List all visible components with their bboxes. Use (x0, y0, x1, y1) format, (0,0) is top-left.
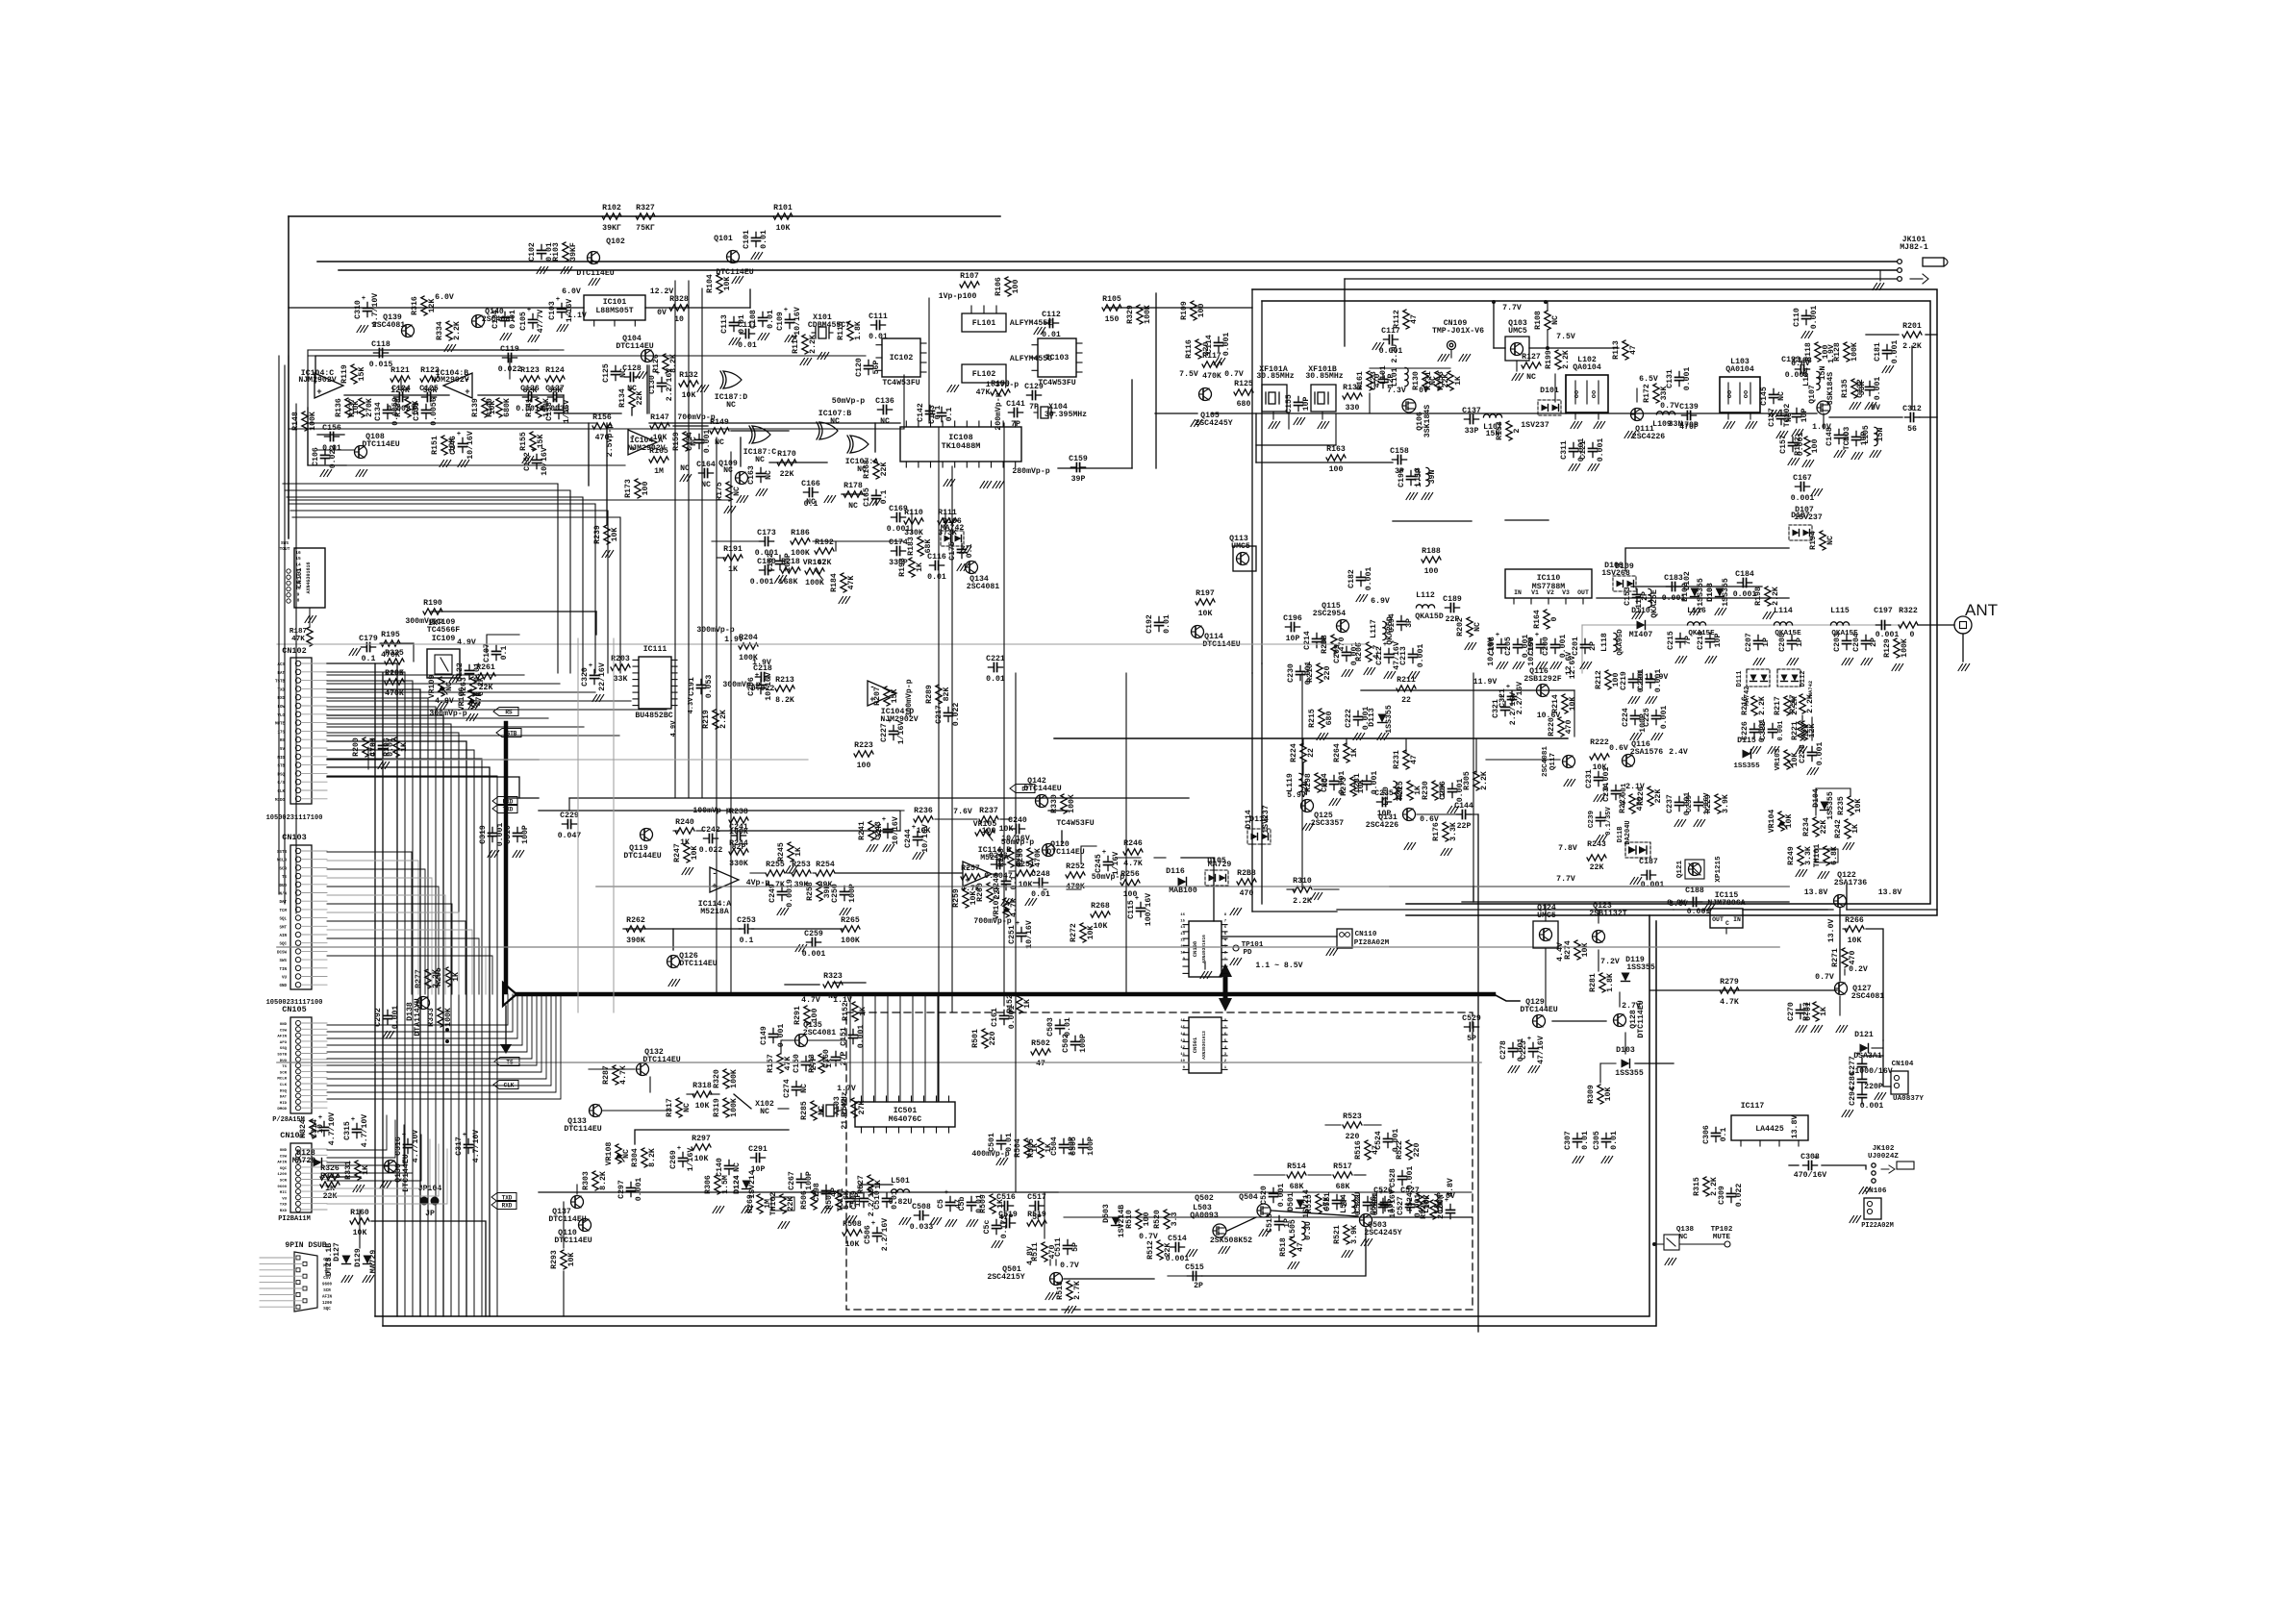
svg-text:D113: D113 (1368, 708, 1376, 727)
svg-text:R159: R159 (672, 432, 681, 451)
resistor R334 (436, 321, 462, 340)
resistor R188 (1422, 547, 1441, 576)
label Q113 (1229, 535, 1248, 543)
svg-text:0.7V: 0.7V (1139, 1233, 1158, 1241)
svg-text:R502: R502 (1031, 1039, 1050, 1048)
ground gnd (778, 1222, 790, 1229)
wire (506, 797, 539, 799)
resistor R207 (873, 687, 899, 706)
svg-text:330: 330 (1346, 404, 1360, 412)
label MA729 (369, 1250, 378, 1274)
label 1SV237 (1794, 513, 1823, 522)
svg-text:13: 13 (1180, 1039, 1185, 1043)
svg-text:56P: 56P (872, 361, 881, 375)
connector CN106 P122A02M (1850, 1187, 1894, 1230)
capacitor C5c (983, 1215, 1009, 1239)
resistor R203 (611, 655, 630, 684)
wire (1505, 519, 1548, 521)
label 1SV237 (1521, 421, 1549, 430)
resistor R505 (1027, 1138, 1053, 1158)
svg-text:R242: R242 (1834, 819, 1843, 838)
wire (288, 216, 290, 538)
resistor R268 (1091, 902, 1110, 931)
resistor R242 (1834, 819, 1860, 838)
ground gnd (899, 1218, 911, 1225)
svg-text:CSW: CSW (280, 1029, 288, 1033)
svg-text:VR108: VR108 (605, 1142, 614, 1166)
svg-text:1.1V: 1.1V (833, 996, 852, 1005)
svg-text:MCLR: MCLR (277, 1078, 287, 1082)
wire (1598, 950, 1599, 971)
capacitor C141 (1006, 400, 1025, 429)
resistor R525 (1420, 1200, 1446, 1219)
svg-text:50mVp-p: 50mVp-p (1092, 873, 1124, 882)
label Q136 (394, 1163, 403, 1183)
svg-text:9: 9 (297, 591, 300, 597)
wire (1635, 1062, 1674, 1064)
svg-text:R135: R135 (1841, 379, 1850, 398)
label 0V (1871, 404, 1880, 412)
transistor npn (1036, 795, 1048, 808)
capacitor C511 (1054, 1237, 1080, 1257)
svg-text:R223: R223 (854, 741, 873, 750)
svg-text:56: 56 (1907, 425, 1917, 434)
svg-text:300mVp-p: 300mVp-p (905, 679, 914, 716)
transistor npn (571, 1196, 584, 1209)
svg-text:AFIN: AFIN (277, 1162, 287, 1165)
inductor ind (1656, 412, 1674, 414)
label 1000/16V (1854, 1066, 1892, 1076)
svg-text:R210: R210 (1306, 663, 1315, 683)
transistor Q117 2SC4081 (1542, 746, 1575, 787)
svg-text:10K: 10K (845, 1240, 860, 1249)
wire (1055, 1260, 1057, 1265)
label CDBM455C7 (808, 321, 850, 330)
label DTC144EU (1520, 1006, 1557, 1014)
svg-text:C174: C174 (889, 538, 908, 547)
resistor R295 (435, 967, 461, 987)
connector CN107 (277, 1131, 327, 1213)
ground gnd (1311, 893, 1322, 900)
svg-text:CN104: CN104 (1892, 1061, 1914, 1068)
svg-text:R297: R297 (692, 1135, 711, 1143)
svg-text:100K: 100K (309, 412, 317, 431)
svg-text:R102: R102 (602, 204, 621, 212)
svg-text:NC: NC (683, 1103, 692, 1112)
ground gnd (993, 482, 1004, 488)
capacitor C230 (1287, 662, 1313, 686)
svg-text:R114: R114 (792, 335, 800, 354)
svg-text:C145: C145 (1760, 387, 1769, 406)
svg-text:GND: GND (280, 1023, 288, 1027)
svg-text:7.3V: 7.3V (1387, 387, 1406, 395)
svg-text:11.9V: 11.9V (1473, 678, 1498, 687)
svg-text:0.001: 0.001 (1379, 347, 1403, 356)
inductor L118 QKA95D (1600, 629, 1624, 656)
svg-text:R200: R200 (352, 737, 361, 757)
resistor R150 (991, 380, 1010, 395)
svg-text:IC102: IC102 (890, 354, 914, 362)
svg-text:470: 470 (1565, 720, 1573, 735)
resistor R195 (381, 631, 400, 660)
svg-text:0.001: 0.001 (1860, 1102, 1884, 1111)
wire (696, 830, 704, 832)
svg-text:R262: R262 (626, 916, 645, 925)
wire mid horizontal h (569, 797, 1189, 799)
svg-text:22P: 22P (1457, 822, 1472, 831)
ground gnd (1882, 366, 1894, 373)
ground gnd (1497, 662, 1508, 669)
diode dio (342, 1256, 351, 1264)
transistor npn (1192, 626, 1204, 638)
svg-text:10P: 10P (1302, 397, 1311, 412)
label DTC114EU (362, 440, 399, 449)
svg-text:BU4852BC: BU4852BC (635, 712, 672, 720)
net flag RS (493, 708, 518, 716)
svg-text:10K: 10K (776, 224, 791, 233)
resistor R214 (1551, 694, 1577, 713)
svg-text:DTC144EU: DTC144EU (1023, 785, 1061, 793)
svg-text:0V: 0V (1419, 387, 1428, 395)
svg-text:C102: C102 (528, 242, 537, 262)
label 7.3V (1387, 387, 1406, 395)
capacitor C217 (935, 703, 961, 727)
svg-text:R277: R277 (415, 969, 423, 988)
svg-text:R254: R254 (816, 861, 835, 869)
resistor R234 (1802, 817, 1828, 837)
svg-text:1K: 1K (794, 847, 803, 857)
svg-text:C204: C204 (1852, 633, 1861, 652)
svg-text:R322: R322 (1899, 607, 1918, 615)
resistor R315 (1693, 1177, 1719, 1196)
capacitor C200 (1542, 635, 1568, 659)
svg-text:R186: R186 (791, 529, 810, 537)
svg-text:SQC: SQC (280, 1167, 288, 1171)
svg-text:14: 14 (1180, 1033, 1185, 1037)
svg-text:R172: R172 (1643, 384, 1651, 403)
ground gnd (1219, 1247, 1230, 1254)
svg-text:C180: C180 (757, 558, 776, 566)
wire (740, 437, 742, 466)
connector CN501 AXN39301613 (1180, 1017, 1227, 1073)
svg-text:33P: 33P (1465, 427, 1479, 436)
svg-text:1.8K: 1.8K (854, 321, 863, 340)
wire gray vert 638 (613, 638, 615, 1012)
wire left vertical from top rail (288, 216, 290, 538)
label C526 (1373, 1187, 1393, 1195)
label 3SK184S (1423, 405, 1432, 437)
svg-text:R104: R104 (706, 274, 715, 293)
wire (874, 423, 876, 452)
svg-text:C116: C116 (927, 553, 946, 562)
svg-text:0.1: 0.1 (945, 408, 954, 422)
resistor R184 (830, 573, 856, 592)
svg-text:Q138: Q138 (1676, 1226, 1695, 1234)
label L503 (1193, 1204, 1212, 1212)
svg-text:13.0V: 13.0V (1827, 919, 1836, 943)
svg-text:R230: R230 (1422, 781, 1430, 800)
transistor npn (716, 251, 753, 278)
svg-text:C118: C118 (371, 340, 390, 349)
label 300mVp-p (429, 710, 466, 718)
label DTA114YU (414, 998, 422, 1036)
svg-text:0.001: 0.001 (1365, 567, 1373, 591)
svg-text:C297: C297 (617, 1180, 626, 1199)
label DTC114EU (1202, 640, 1240, 649)
ground gnd (944, 480, 955, 487)
capacitor C245 (1095, 849, 1120, 875)
label 4.9V (435, 697, 454, 706)
capacitor C319 (479, 823, 505, 847)
svg-text:2SC4226: 2SC4226 (1366, 821, 1398, 830)
svg-text:XP1215: XP1215 (1715, 856, 1723, 883)
ground gnd (1818, 872, 1829, 879)
resistor R221 (1791, 721, 1817, 740)
svg-text:2SC2954: 2SC2954 (1313, 610, 1346, 618)
label DSA3A1 (1853, 1052, 1882, 1061)
transistor npn (736, 472, 748, 485)
label Q124 (1537, 904, 1556, 912)
resistor R323 (823, 972, 843, 1001)
svg-text:4.9V: 4.9V (457, 638, 476, 647)
svg-text:10K: 10K (1198, 610, 1213, 618)
filter FL101 ALFYM455E (962, 306, 1052, 332)
svg-text:PD: PD (1243, 949, 1252, 957)
svg-text:C109: C109 (776, 312, 785, 331)
svg-text:R201: R201 (1902, 322, 1922, 331)
svg-text:1SV237: 1SV237 (1794, 513, 1823, 522)
svg-text:Q102: Q102 (606, 237, 625, 246)
capacitor C231 0.001 (1585, 767, 1611, 802)
svg-text:0: 0 (1910, 631, 1915, 639)
svg-text:D124: D124 (733, 1175, 742, 1194)
resistor R129 100K (1883, 638, 1909, 671)
svg-text:1K: 1K (428, 619, 438, 628)
svg-text:R140: R140 (486, 398, 494, 417)
svg-text:R512: R512 (1146, 1240, 1155, 1260)
transistor npn (472, 315, 485, 328)
capacitor C219 (1620, 669, 1646, 693)
wire (327, 777, 519, 798)
svg-text:R227: R227 (1619, 794, 1627, 813)
svg-text:MIDO: MIDO (275, 799, 286, 803)
capacitor C125 (602, 363, 628, 383)
capacitor C198 (1488, 632, 1506, 656)
svg-text:C291: C291 (748, 1145, 768, 1154)
capacitor C113 (720, 314, 746, 334)
svg-text:30.85MHz: 30.85MHz (1305, 372, 1343, 381)
resistor R238 (729, 808, 748, 837)
svg-text:C502: C502 (1062, 1034, 1070, 1053)
svg-text:15: 15 (1180, 920, 1185, 924)
wire (1308, 1174, 1331, 1176)
capacitor C119 (498, 345, 522, 374)
ground gnd (824, 496, 836, 503)
svg-text:47/7V: 47/7V (536, 310, 545, 334)
inductor ind (1352, 1194, 1355, 1212)
svg-text:R235: R235 (1837, 796, 1846, 815)
svg-text:R243: R243 (1587, 840, 1606, 849)
svg-text:0.015: 0.015 (369, 361, 393, 369)
svg-text:D11B: D11B (1617, 826, 1624, 843)
wire (317, 434, 344, 436)
svg-text:C501: C501 (988, 1133, 996, 1152)
wire (563, 1271, 565, 1316)
svg-text:0.022: 0.022 (952, 703, 961, 727)
ground gnd (1372, 343, 1384, 350)
wire (1361, 689, 1574, 691)
label 700mVp-p (677, 413, 715, 422)
resistor R226 22K (1637, 787, 1663, 806)
wire left vertical x390 (374, 663, 376, 1316)
IC114 opamp B M5218A (963, 846, 1011, 887)
svg-text:0.022: 0.022 (699, 846, 723, 855)
svg-text:39P: 39P (1071, 475, 1086, 484)
label C193 (1781, 356, 1800, 364)
label QA0093 (1190, 1212, 1219, 1220)
svg-text:C528: C528 (1389, 1168, 1397, 1187)
svg-text:R522: R522 (1396, 1140, 1404, 1160)
svg-text:4.7/10V: 4.7/10V (360, 1114, 369, 1147)
svg-text:220: 220 (989, 1032, 997, 1046)
svg-text:R219: R219 (702, 710, 711, 729)
ground gnd (468, 703, 480, 710)
ground gnd (1001, 899, 1013, 906)
label DTC114EU (1046, 848, 1084, 857)
svg-text:R508: R508 (843, 1220, 862, 1229)
resistor R247 (673, 843, 699, 862)
ground gnd (528, 336, 540, 342)
svg-text:10/16V: 10/16V (920, 824, 930, 853)
ground gnd (992, 1241, 1003, 1248)
svg-text:R198: R198 (1754, 587, 1763, 606)
wire (1256, 444, 1336, 446)
wire ANT feed (1582, 625, 1902, 673)
capacitor C224 (1622, 708, 1640, 727)
label XF101A (1259, 365, 1288, 374)
svg-text:TS: TS (282, 1065, 287, 1069)
capacitor C529 (1462, 1014, 1481, 1043)
svg-text:AFIN: AFIN (322, 1295, 333, 1299)
svg-text:2.2K: 2.2K (1791, 696, 1800, 715)
resistor R289 (925, 685, 951, 704)
svg-text:DTC114EU: DTC114EU (1637, 1000, 1646, 1037)
svg-text:VR103: VR103 (1775, 748, 1782, 770)
crystal xtl (819, 1105, 841, 1116)
svg-text:C189: C189 (1443, 595, 1462, 604)
label Q122 (1837, 871, 1856, 880)
resistor R155 (519, 432, 545, 451)
capacitor C134 (374, 397, 400, 426)
label NC (806, 498, 816, 507)
transistor Q116b 2SA1576 (1623, 740, 1688, 767)
wire long vertical j (701, 288, 703, 798)
capacitor C204 2P (1833, 633, 1878, 664)
svg-text:0.7V: 0.7V (1815, 973, 1834, 982)
wire (813, 872, 815, 874)
ground gnd (1842, 1111, 1853, 1117)
resistor R197 (1196, 589, 1215, 618)
wire CN103 fan bundle (327, 852, 492, 994)
label L113 (1414, 467, 1422, 487)
svg-text:300mVp-p: 300mVp-p (429, 710, 466, 718)
wire (808, 1039, 846, 1041)
svg-text:C150: C150 (793, 1054, 801, 1073)
resistor R327 (636, 204, 655, 233)
label 13.8V (1878, 888, 1902, 897)
svg-text:10K: 10K (653, 434, 667, 442)
label 6.9V (1371, 597, 1390, 606)
ground gnd (786, 866, 797, 873)
label 3SK184S (1826, 372, 1835, 405)
capacitor C191 (688, 675, 714, 699)
capacitor C502 (1062, 1034, 1088, 1053)
svg-text:3.9K: 3.9K (1350, 1225, 1359, 1244)
wire bottom box line1 (375, 915, 1649, 1316)
wire (1048, 810, 1068, 812)
svg-text:DTC114EU: DTC114EU (564, 1125, 601, 1134)
svg-text:CSW: CSW (280, 1155, 288, 1159)
capacitor C503 (1046, 1017, 1072, 1037)
svg-text:D101: D101 (1540, 387, 1559, 395)
svg-text:68K: 68K (924, 539, 933, 554)
ground gnd (1361, 1239, 1372, 1246)
capacitor C311 (1560, 438, 1586, 462)
ground gnd (1025, 899, 1037, 906)
svg-text:R178: R178 (843, 482, 863, 490)
ground gnd (353, 1186, 365, 1192)
svg-text:+: + (465, 387, 469, 397)
ground gnd (437, 703, 448, 710)
svg-text:SCR: SCR (323, 1289, 331, 1293)
svg-text:C187: C187 (1639, 858, 1658, 866)
wire (833, 982, 866, 984)
svg-text:10K: 10K (1581, 943, 1590, 958)
connector CN105 (277, 1005, 327, 1113)
svg-text:R518: R518 (1279, 1237, 1288, 1257)
ground gnd (592, 695, 604, 702)
wire (1866, 929, 1883, 1040)
connector CN101 AXN4G301616 (280, 540, 325, 623)
svg-text:2.2K: 2.2K (453, 321, 462, 340)
label X101 (813, 313, 832, 322)
svg-text:DMOD: DMOD (277, 1108, 287, 1112)
svg-text:C237: C237 (1666, 794, 1674, 813)
svg-text:C504: C504 (1050, 1137, 1059, 1156)
capacitor C145 (1760, 387, 1786, 406)
resistor R246 (1123, 839, 1143, 868)
label IC109 name (427, 618, 460, 635)
bus thick horizontal (516, 992, 1494, 997)
svg-text:8.2K: 8.2K (599, 1171, 608, 1190)
svg-text:IC110: IC110 (1537, 574, 1561, 583)
wire (1486, 759, 1560, 761)
svg-text:2SC4245Y: 2SC4245Y (1364, 1229, 1401, 1237)
svg-text:680K: 680K (503, 398, 512, 417)
label 12.6V (1569, 656, 1577, 680)
svg-text:R234: R234 (1802, 817, 1811, 837)
resistor R186 (791, 529, 810, 558)
svg-text:L120: L120 (1382, 787, 1391, 806)
ground gnd (947, 386, 959, 392)
capacitor C214 (1303, 631, 1329, 650)
svg-text:VU: VU (282, 977, 288, 981)
wire L103 grounds (1724, 412, 1757, 429)
svg-text:22K: 22K (636, 391, 644, 406)
resistor R522 (1396, 1140, 1422, 1160)
svg-text:R256: R256 (1120, 870, 1140, 879)
label QKA15D (1415, 612, 1444, 621)
